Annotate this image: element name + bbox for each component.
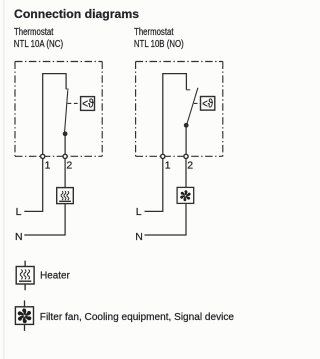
svg-text:2: 2 <box>187 160 193 172</box>
svg-text:Connection diagrams: Connection diagrams <box>14 7 139 21</box>
svg-text:NTL 10A (NC): NTL 10A (NC) <box>14 39 63 50</box>
svg-text:1: 1 <box>45 160 51 172</box>
svg-text:<ϑ: <ϑ <box>82 99 94 111</box>
svg-text:N: N <box>135 231 143 243</box>
svg-text:Filter fan, Cooling equipment,: Filter fan, Cooling equipment, Signal de… <box>40 312 234 323</box>
svg-text:Thermostat: Thermostat <box>134 27 174 38</box>
svg-text:<ϑ: <ϑ <box>202 99 214 111</box>
svg-text:N: N <box>15 231 23 243</box>
svg-text:Thermostat: Thermostat <box>14 27 54 38</box>
svg-text:Heater: Heater <box>40 271 70 282</box>
svg-text:L: L <box>136 206 142 218</box>
svg-text:NTL 10B (NO): NTL 10B (NO) <box>134 39 184 50</box>
svg-text:1: 1 <box>165 160 171 172</box>
svg-text:2: 2 <box>66 160 72 172</box>
svg-text:L: L <box>16 206 22 218</box>
